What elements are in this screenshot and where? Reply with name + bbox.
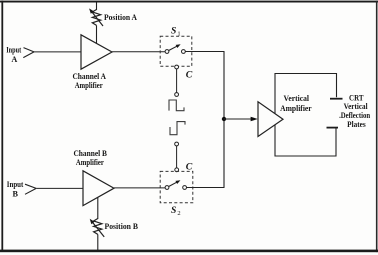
vertical amplifier enclosure box xyxy=(275,74,337,157)
svg-text:S: S xyxy=(171,25,176,36)
switch S2 xyxy=(160,171,193,217)
node Input B xyxy=(7,180,36,199)
svg-text:Input: Input xyxy=(7,180,24,189)
wire S2 output to trunk xyxy=(187,187,225,189)
contact node above chopping waveform 1 xyxy=(175,93,179,97)
svg-text:Vertical: Vertical xyxy=(284,93,310,103)
wire down to S2 C terminal xyxy=(176,146,178,168)
CRT deflection plate top xyxy=(330,98,343,100)
switch S1 xyxy=(160,25,192,66)
svg-text:Position A: Position A xyxy=(104,13,137,22)
svg-text:.Deflection: .Deflection xyxy=(339,111,370,120)
wire channel A output to S1 xyxy=(112,51,165,53)
svg-text:Channel A: Channel A xyxy=(72,72,106,81)
svg-text:Input: Input xyxy=(6,45,21,54)
chopping waveform 1 xyxy=(169,100,184,111)
chopping waveform 2 xyxy=(170,122,185,135)
wire S1 C terminal down xyxy=(176,69,178,93)
CRT deflection plate bottom xyxy=(327,127,339,129)
svg-text:C: C xyxy=(186,161,193,172)
amplifier Vertical xyxy=(258,93,312,137)
wire S1 output to trunk xyxy=(185,51,224,53)
label CRT Vertical Deflection Plates xyxy=(339,93,370,129)
svg-text:S: S xyxy=(171,205,176,216)
amplifier Channel A xyxy=(72,35,112,90)
svg-text:Amplifier: Amplifier xyxy=(75,81,103,90)
svg-text:B: B xyxy=(13,190,19,199)
svg-text:Plates: Plates xyxy=(347,120,366,129)
svg-text:Amplifier: Amplifier xyxy=(76,158,104,167)
svg-text:C: C xyxy=(186,70,193,81)
wire junction to vertical amplifier with arrow xyxy=(224,117,258,122)
svg-text:2: 2 xyxy=(177,210,180,217)
variable resistor Position B xyxy=(88,197,138,250)
wire channel B output to S2 xyxy=(114,187,165,189)
wire trunk vertical xyxy=(223,52,225,188)
terminal C of S1 xyxy=(175,65,193,81)
contact node below chopping waveform 2 xyxy=(175,142,179,146)
svg-text:A: A xyxy=(11,55,17,64)
wire input B to channel B amplifier xyxy=(36,187,83,189)
variable resistor Position A xyxy=(88,3,137,44)
junction node xyxy=(222,117,226,121)
wire input A to channel A amplifier xyxy=(34,51,82,53)
svg-text:Vertical: Vertical xyxy=(344,102,369,111)
svg-text:1: 1 xyxy=(177,30,180,37)
svg-text:Amplifier: Amplifier xyxy=(280,103,312,113)
svg-text:Position B: Position B xyxy=(105,222,139,231)
svg-text:CRT: CRT xyxy=(349,93,364,102)
svg-text:Channel B: Channel B xyxy=(73,149,107,158)
node Input A xyxy=(6,45,34,64)
terminal C of S2 xyxy=(175,161,193,172)
amplifier Channel B xyxy=(73,149,114,205)
